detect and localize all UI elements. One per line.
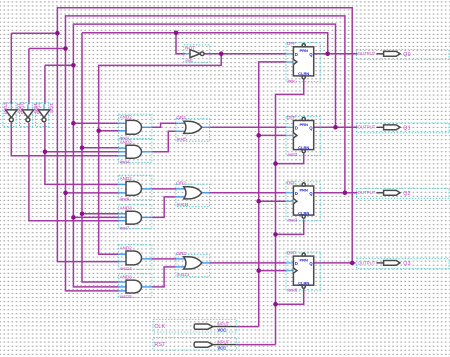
AND gate inst7 (AND3) bbox=[119, 205, 152, 230]
svg-text:NOT: NOT bbox=[49, 103, 54, 113]
svg-text:D: D bbox=[295, 261, 298, 266]
wire: RST net distribution to CLRN pins bbox=[236, 79, 304, 345]
OR gate inst11 (OR2) bbox=[176, 181, 210, 207]
junction J9 bbox=[63, 191, 68, 196]
svg-text:DFF: DFF bbox=[287, 41, 296, 46]
svg-text:PRN: PRN bbox=[299, 122, 308, 127]
svg-text:DFF: DFF bbox=[287, 115, 296, 120]
svg-text:inst6: inst6 bbox=[288, 288, 298, 293]
wire: Q2 output net to pin Q2 bbox=[314, 192, 358, 194]
svg-text:D: D bbox=[295, 126, 298, 131]
input pin RST bbox=[153, 337, 236, 350]
svg-text:inst12: inst12 bbox=[36, 102, 42, 114]
junction J4 bbox=[174, 31, 179, 36]
svg-text:Q1: Q1 bbox=[403, 126, 411, 132]
AND gate inst9 (AND2) bbox=[119, 175, 152, 201]
wire: Q3 net top bus (y=7.8) bbox=[11, 8, 352, 263]
D flip-flop U2 (DFF inst2) bbox=[286, 115, 320, 157]
D flip-flop U3 (DFF inst3) bbox=[286, 180, 320, 222]
wire: NOT U8 output net (rows 151.8 / 184.4) bbox=[45, 123, 119, 185]
svg-text:inst13: inst13 bbox=[3, 102, 9, 114]
svg-text:OUTPUT: OUTPUT bbox=[358, 51, 376, 56]
svg-text:AND3: AND3 bbox=[120, 140, 133, 145]
svg-text:CLRN: CLRN bbox=[298, 210, 309, 215]
wire: OR U15 output to DFF U2 D bbox=[210, 126, 287, 128]
svg-text:INPUT: INPUT bbox=[217, 322, 230, 327]
output pin Q1 bbox=[357, 123, 449, 133]
junction J22 bbox=[273, 302, 278, 307]
svg-text:OR2: OR2 bbox=[176, 251, 186, 256]
inverter (NOT gate, rotated) inst12 bbox=[36, 102, 54, 127]
junction J2 bbox=[63, 46, 68, 51]
wire: Q1 net bus (y=24.1) bbox=[45, 24, 336, 287]
svg-text:Q2: Q2 bbox=[403, 191, 411, 197]
AND gate inst14 (AND2) bbox=[119, 245, 152, 271]
wire: AND U10 output to OR U15 input B bbox=[152, 131, 176, 152]
wire: Q3 output net to pin Q3 bbox=[314, 262, 356, 264]
D flip-flop U4 (DFF inst6) bbox=[286, 251, 320, 293]
svg-text:inst11: inst11 bbox=[177, 202, 189, 207]
junction J10 bbox=[80, 212, 85, 217]
input pin CLK bbox=[153, 319, 236, 332]
wire: AND U13 output to OR U17 input A bbox=[152, 258, 176, 260]
svg-text:OUTPUT: OUTPUT bbox=[358, 260, 376, 265]
AND gate inst15 (AND3) bbox=[119, 274, 152, 299]
inverter (NOT gate, rotated) inst10 bbox=[20, 102, 38, 127]
wire: AND U9 output to OR U15 input A bbox=[152, 123, 176, 127]
svg-text:inst: inst bbox=[288, 78, 296, 83]
AND gate inst4 (AND3) bbox=[119, 139, 152, 164]
junction J15 bbox=[343, 191, 348, 196]
junction J13 bbox=[325, 52, 330, 57]
svg-text:VCC: VCC bbox=[217, 327, 226, 332]
AND gate inst1 (AND2) bbox=[119, 114, 152, 140]
svg-text:D: D bbox=[295, 191, 298, 196]
svg-text:inst15: inst15 bbox=[120, 294, 133, 299]
junction J11 bbox=[71, 215, 76, 220]
output pin Q3 bbox=[357, 259, 449, 269]
wire: NOT U6 output net (y=155.8 row) bbox=[11, 123, 118, 156]
svg-text:OR2: OR2 bbox=[176, 115, 186, 120]
wire: Q0 output net to pin Q0 bbox=[314, 53, 358, 55]
OR gate inst5 (OR2) bbox=[176, 115, 210, 141]
svg-text:DFF: DFF bbox=[287, 180, 296, 185]
inverter U5 (NOT gate) inst bbox=[184, 45, 210, 63]
svg-text:inst3: inst3 bbox=[288, 218, 298, 223]
svg-text:inst2: inst2 bbox=[288, 152, 298, 157]
svg-text:AND3: AND3 bbox=[120, 206, 133, 211]
svg-text:inst: inst bbox=[186, 58, 194, 63]
wire: AND U12 output to OR U16 input B bbox=[152, 197, 176, 218]
wire: D0 net (NOT U5 output to DFF U1 D and row feeds) bbox=[99, 54, 287, 255]
junction J5 bbox=[71, 121, 76, 126]
svg-text:inst13: inst13 bbox=[177, 272, 190, 277]
svg-text:DFF: DFF bbox=[287, 251, 296, 256]
svg-text:Q3: Q3 bbox=[403, 261, 411, 267]
wire: AND U11 output to OR U16 input A bbox=[152, 188, 176, 190]
wire: Q1 output net to pin Q1 bbox=[314, 126, 358, 128]
svg-text:RST: RST bbox=[154, 342, 166, 348]
svg-text:inst10: inst10 bbox=[20, 102, 26, 114]
output pin Q2 bbox=[357, 188, 449, 198]
junction J17 bbox=[256, 133, 261, 138]
svg-text:PRN: PRN bbox=[299, 257, 308, 262]
junction J8 bbox=[43, 150, 48, 155]
wire: Q0 net bus (y=32.8) bbox=[82, 33, 328, 282]
junction J6 bbox=[96, 128, 101, 133]
svg-text:AND3: AND3 bbox=[120, 274, 133, 279]
D flip-flop U1 (DFF inst) bbox=[286, 41, 320, 83]
junction J3 bbox=[71, 63, 76, 68]
wire: NOT U7 output net (y=220.7 row) bbox=[29, 123, 119, 221]
svg-text:CLRN: CLRN bbox=[298, 71, 309, 76]
wire: CLK net distribution bbox=[236, 62, 286, 327]
svg-text:OR2: OR2 bbox=[176, 181, 186, 186]
junction J19 bbox=[256, 268, 261, 273]
wire: Q2 net bus (y=15.9) bbox=[29, 16, 345, 291]
svg-text:OUTPUT: OUTPUT bbox=[358, 125, 376, 130]
svg-text:PRN: PRN bbox=[299, 187, 308, 192]
svg-text:inst4: inst4 bbox=[120, 159, 130, 164]
junction J1 bbox=[55, 31, 60, 36]
svg-text:inst14: inst14 bbox=[120, 266, 133, 271]
svg-text:INPUT: INPUT bbox=[217, 340, 230, 345]
wire: AND U14 output to OR U17 input B bbox=[152, 267, 176, 287]
svg-text:OUTPUT: OUTPUT bbox=[358, 190, 376, 195]
svg-text:AND2: AND2 bbox=[120, 176, 133, 181]
junction J16 bbox=[350, 261, 355, 266]
wire: OR U17 output to DFF U4 D bbox=[210, 262, 287, 264]
inverter (NOT gate, rotated) inst13 bbox=[3, 102, 21, 127]
svg-text:PRN: PRN bbox=[299, 48, 308, 53]
OR gate inst13 (OR2) bbox=[176, 251, 210, 277]
svg-text:CLK: CLK bbox=[154, 324, 165, 330]
svg-text:Q0: Q0 bbox=[403, 52, 411, 58]
svg-text:inst7: inst7 bbox=[120, 225, 130, 230]
svg-text:inst5: inst5 bbox=[177, 137, 187, 142]
junction J20 bbox=[273, 161, 278, 166]
junction J7 bbox=[80, 146, 85, 151]
svg-text:inst9: inst9 bbox=[120, 197, 130, 202]
svg-text:VCC: VCC bbox=[217, 345, 226, 350]
svg-text:AND2: AND2 bbox=[120, 245, 133, 250]
junction J14 bbox=[333, 125, 338, 130]
svg-text:CLRN: CLRN bbox=[298, 280, 309, 285]
svg-text:CLRN: CLRN bbox=[298, 145, 309, 150]
svg-text:AND2: AND2 bbox=[120, 115, 133, 120]
output pin Q0 bbox=[357, 49, 449, 59]
svg-text:D: D bbox=[295, 52, 298, 57]
junction J18 bbox=[256, 199, 261, 204]
wire: OR U16 output to DFF U3 D bbox=[210, 192, 287, 194]
junction J21 bbox=[273, 232, 278, 237]
junction J12 bbox=[219, 51, 224, 56]
